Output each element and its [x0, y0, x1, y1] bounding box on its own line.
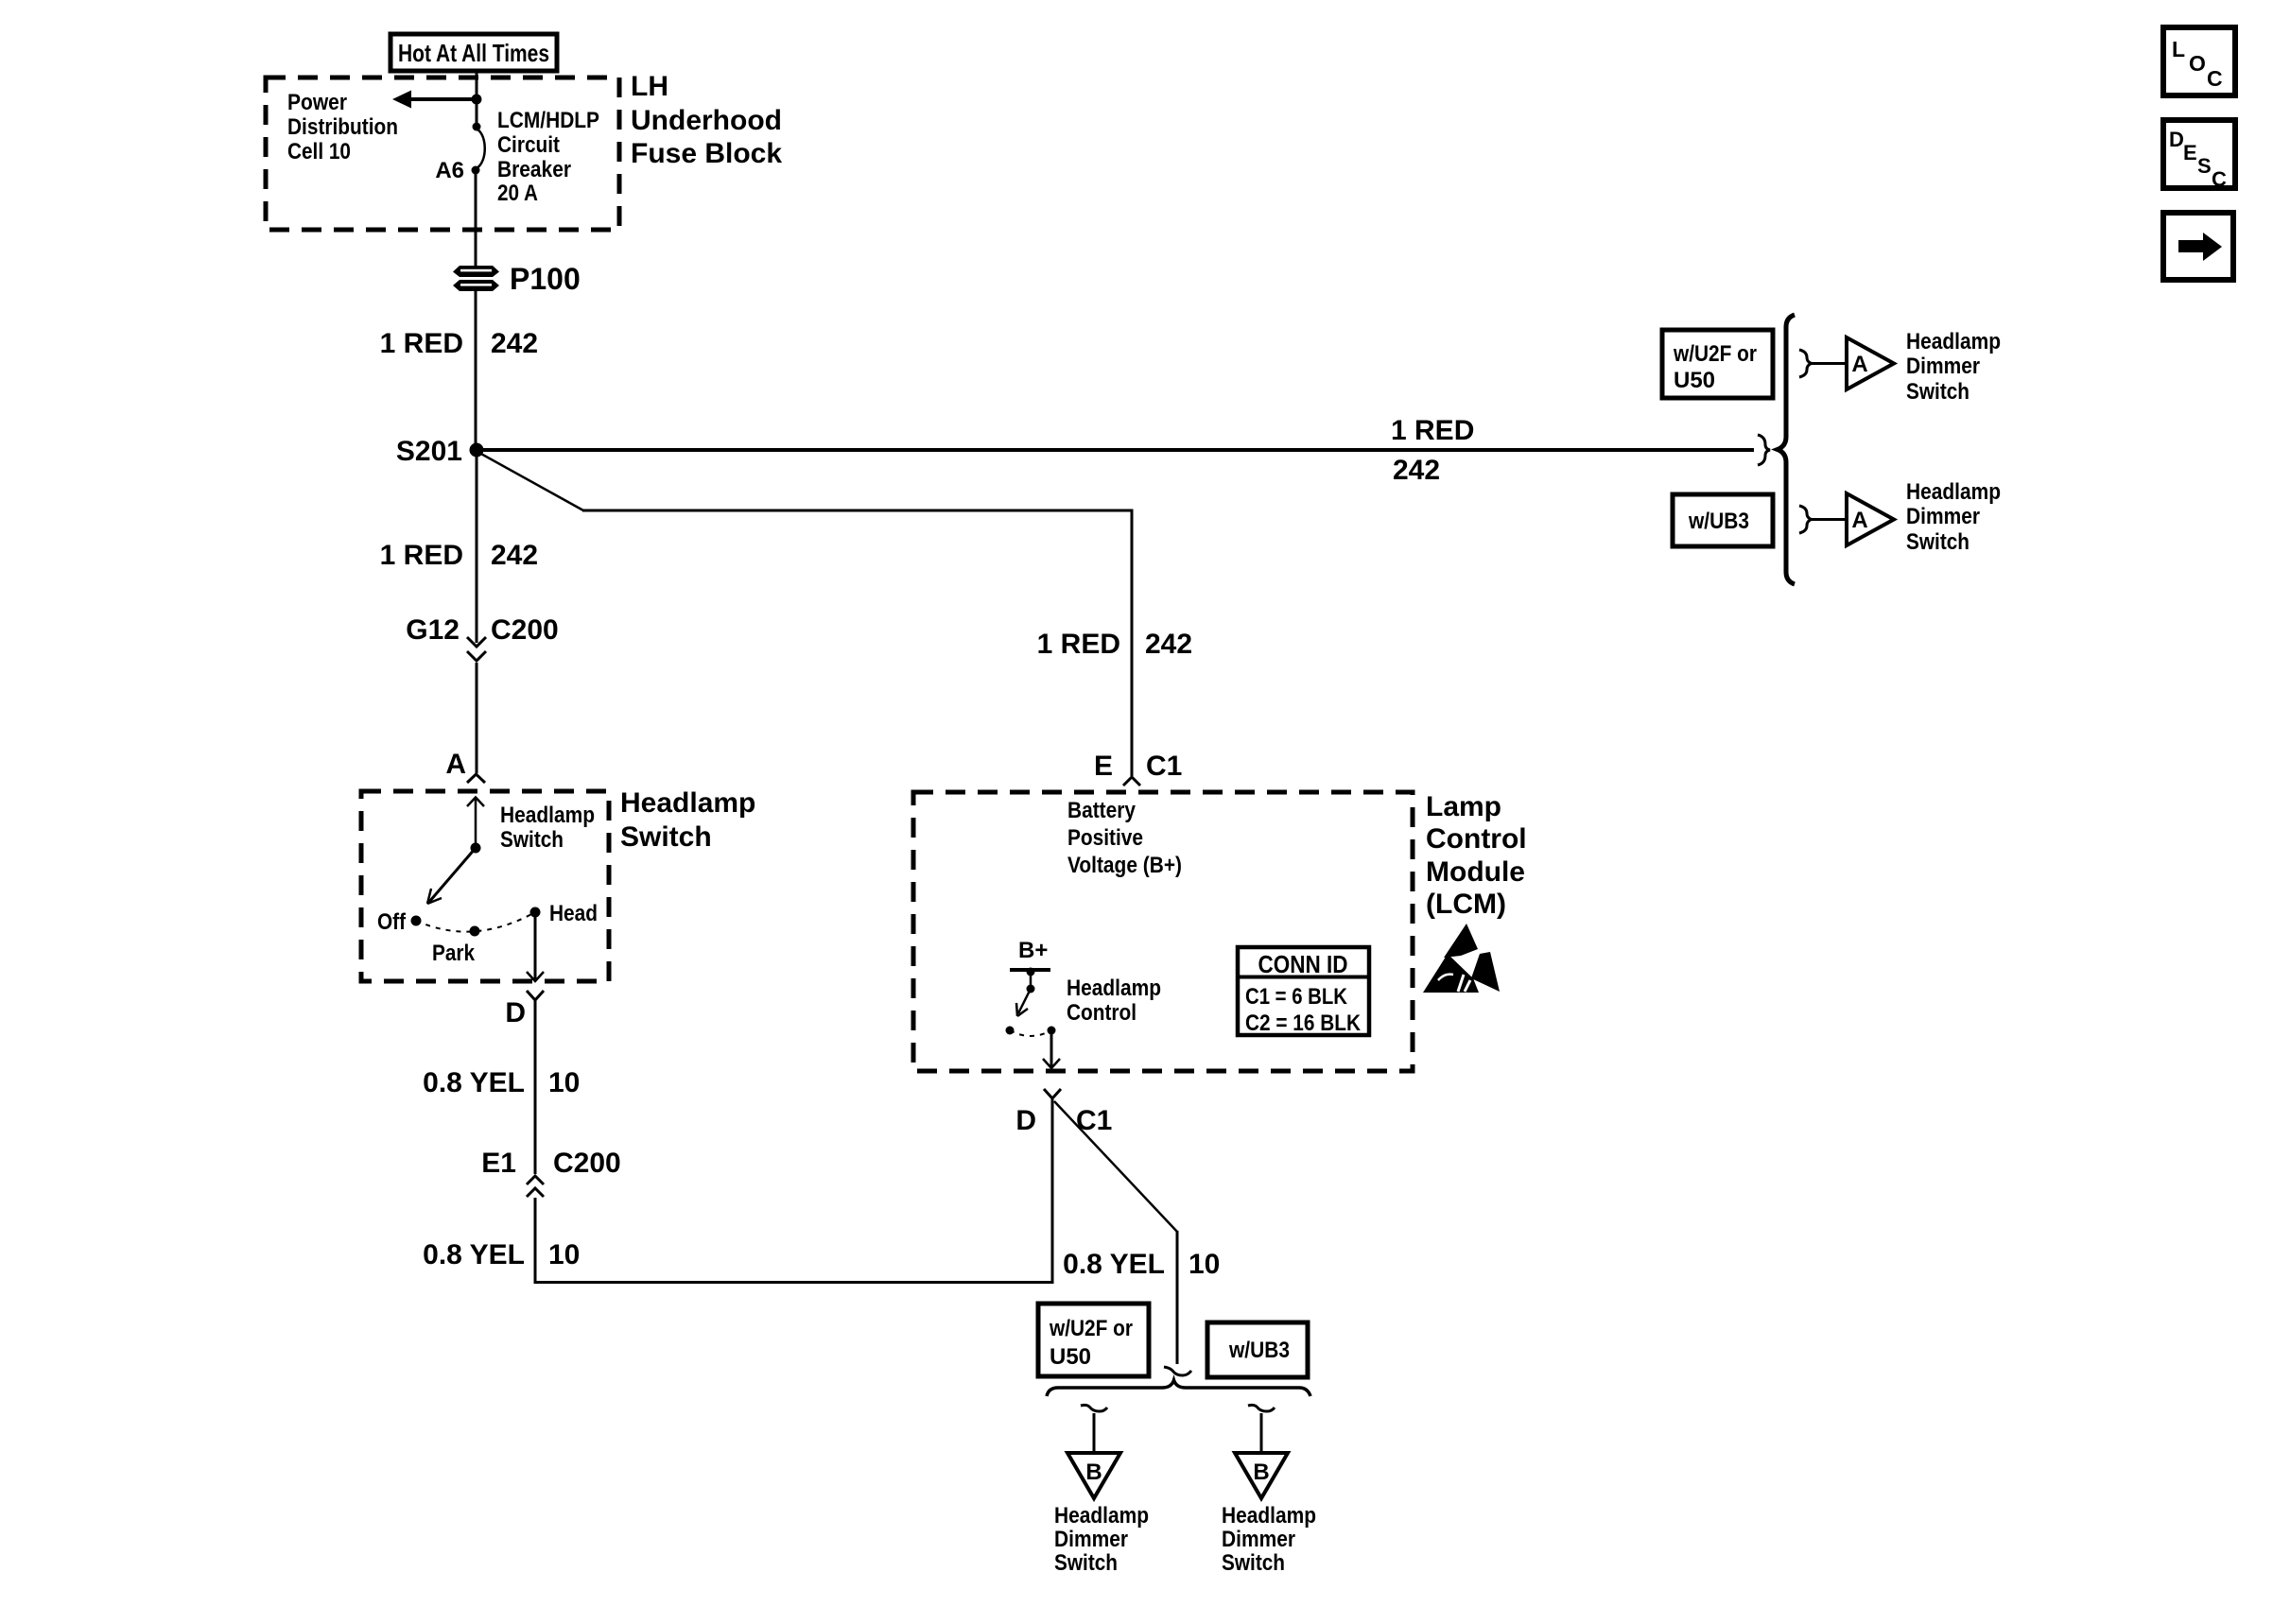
- svg-text:A: A: [1851, 508, 1867, 533]
- connector C200 pin G12 (inline connector chevrons): [406, 614, 558, 661]
- svg-text:1 RED: 1 RED: [380, 328, 463, 359]
- wire: headlamp switch D down to C200: [534, 1000, 537, 1174]
- headlamp switch: Head output arrow: [527, 916, 544, 981]
- svg-text:Dimmer: Dimmer: [1054, 1527, 1128, 1552]
- svg-text:w/U2F or: w/U2F or: [1673, 341, 1757, 367]
- label: P100: [510, 262, 581, 296]
- svg-text:Off: Off: [377, 909, 407, 935]
- LCM: headlamp control output arrow to D: [1043, 1033, 1060, 1068]
- svg-text:Headlamp: Headlamp: [1906, 329, 2001, 354]
- option box: w/U2F or U50 (bottom): [1038, 1304, 1149, 1376]
- splice S201: [396, 436, 484, 467]
- svg-text:Positive: Positive: [1067, 825, 1143, 851]
- svg-text:Headlamp: Headlamp: [620, 787, 755, 819]
- svg-text:Switch: Switch: [500, 827, 564, 853]
- dimmer switch branch A (lower): [1799, 493, 1894, 545]
- svg-text:Module: Module: [1426, 856, 1525, 888]
- nav button: next page arrow: [2163, 213, 2233, 280]
- wire: LCM D to dimmer switch options (diagonal then vertical): [1054, 1101, 1177, 1364]
- svg-text:LCM/HDLP: LCM/HDLP: [497, 108, 599, 133]
- connector half-brace at wire end (right): [1758, 435, 1770, 465]
- svg-text:E1: E1: [481, 1148, 516, 1179]
- switch position Head: [530, 901, 599, 926]
- label: Headlamp Dimmer Switch (lower right): [1906, 479, 2001, 555]
- svg-text:Power: Power: [287, 90, 347, 115]
- wire: breaker A6 down to P100: [475, 174, 477, 266]
- label: Headlamp Dimmer Switch (bottom left): [1054, 1503, 1149, 1576]
- svg-text:O: O: [2189, 51, 2206, 76]
- svg-text:U50: U50: [1050, 1344, 1091, 1370]
- label: 0.8 YEL 10 (switch to C200): [423, 1067, 580, 1098]
- svg-text:Dimmer: Dimmer: [1906, 354, 1980, 379]
- wire: P100 to S201: [475, 291, 477, 444]
- svg-text:E: E: [2183, 141, 2197, 164]
- headlamp switch: wiper arm toward Off: [427, 848, 476, 904]
- LH Underhood Fuse Block (dashed outline): [266, 78, 619, 230]
- svg-text:LH: LH: [631, 71, 668, 102]
- svg-text:20 A: 20 A: [497, 181, 538, 206]
- dimmer switch branch B (right, w/UB3): [1235, 1405, 1288, 1498]
- svg-text:Dimmer: Dimmer: [1906, 504, 1980, 529]
- power feed flag: Hot At All Times: [390, 34, 557, 71]
- switch position Park: [432, 926, 480, 967]
- svg-text:S: S: [2197, 154, 2212, 178]
- label: Headlamp Switch (outside): [620, 787, 755, 853]
- label: 1 RED 242 (fuse block to S201): [380, 328, 538, 359]
- svg-text:Underhood: Underhood: [631, 105, 782, 136]
- svg-text:Headlamp: Headlamp: [1906, 479, 2001, 505]
- svg-text:Control: Control: [1067, 1000, 1136, 1026]
- svg-text:C200: C200: [491, 614, 559, 646]
- switch position Off: [377, 909, 422, 935]
- option box: w/UB3 (top): [1673, 494, 1773, 546]
- svg-text:D: D: [2169, 128, 2184, 151]
- svg-text:P100: P100: [510, 262, 581, 296]
- svg-text:Distribution: Distribution: [287, 114, 398, 140]
- svg-text:10: 10: [548, 1067, 580, 1098]
- brace: dimmer switch options (underbrace): [1047, 1380, 1310, 1396]
- svg-text:Cell 10: Cell 10: [287, 139, 351, 164]
- svg-text:Park: Park: [432, 941, 476, 966]
- svg-text:(LCM): (LCM): [1426, 889, 1506, 920]
- svg-text:G12: G12: [406, 614, 460, 646]
- headlamp switch (dashed outline): [361, 791, 609, 981]
- svg-text:Circuit: Circuit: [497, 132, 560, 158]
- svg-text:D: D: [505, 997, 526, 1028]
- svg-text:Lamp: Lamp: [1426, 791, 1501, 822]
- node: tap to power distribution: [472, 95, 482, 105]
- circuit breaker: LCM/HDLP Circuit Breaker 20 A: [472, 123, 485, 175]
- svg-text:CONN ID: CONN ID: [1258, 950, 1348, 978]
- svg-text:Switch: Switch: [1906, 529, 1969, 555]
- svg-text:U50: U50: [1674, 368, 1715, 393]
- label: Headlamp Dimmer Switch (upper right): [1906, 329, 2001, 405]
- connector C200 pin E1 (inline connector chevrons): [481, 1148, 620, 1197]
- connector P100 (pass-through grommet): [453, 266, 499, 291]
- svg-text:B: B: [1085, 1460, 1102, 1485]
- label: Headlamp Control: [1067, 976, 1161, 1026]
- svg-text:D: D: [1015, 1105, 1036, 1136]
- nav button: LOC: [2163, 27, 2235, 95]
- wire: arrow to Power Distribution Cell 10: [392, 91, 477, 109]
- svg-text:C: C: [2212, 167, 2227, 191]
- svg-text:Switch: Switch: [1222, 1550, 1285, 1576]
- label: 1 RED 242 (C200 to headlamp switch): [380, 540, 538, 571]
- svg-text:w/U2F or: w/U2F or: [1049, 1316, 1133, 1341]
- svg-text:Switch: Switch: [620, 821, 712, 853]
- svg-text:0.8 YEL: 0.8 YEL: [1063, 1249, 1165, 1280]
- svg-text:10: 10: [548, 1239, 580, 1270]
- svg-text:Head: Head: [549, 901, 598, 926]
- svg-text:Breaker: Breaker: [497, 157, 571, 182]
- wire: battery feed from Hot At All Times into fuse block: [476, 71, 478, 127]
- svg-text:Headlamp: Headlamp: [1054, 1503, 1149, 1529]
- label: Battery Positive Voltage (B+): [1067, 798, 1182, 878]
- svg-text:S201: S201: [396, 436, 462, 467]
- label: 1 RED 242 (S201 to LCM): [1037, 629, 1192, 660]
- label: 1 RED / 242 (long horizontal wire): [1391, 415, 1474, 486]
- connector half-brace at wire end (bottom): [1164, 1367, 1191, 1375]
- svg-text:Fuse Block: Fuse Block: [631, 138, 782, 169]
- svg-text:C1 = 6 BLK: C1 = 6 BLK: [1245, 984, 1348, 1010]
- svg-text:w/UB3: w/UB3: [1688, 509, 1749, 534]
- brace: headlamp dimmer switch options: [1778, 315, 1795, 584]
- wire: S201 down to C200: [476, 457, 478, 643]
- wire: S201 branch to LCM pin E (diagonal, horizontal, vertical): [479, 453, 1132, 776]
- svg-text:C: C: [2207, 66, 2223, 91]
- svg-text:Headlamp: Headlamp: [1222, 1503, 1316, 1529]
- option box: w/U2F or U50 (top): [1662, 330, 1773, 398]
- label: Headlamp Dimmer Switch (bottom right): [1222, 1503, 1316, 1576]
- svg-text:A: A: [1851, 352, 1867, 377]
- LCM: B+ internal supply bar: [1010, 938, 1050, 976]
- terminal D / C1 of LCM: [1015, 1089, 1112, 1136]
- label: 0.8 YEL 10 (C200 to LCM): [423, 1239, 580, 1270]
- svg-text:242: 242: [1393, 455, 1440, 486]
- LCM: headlamp control switch: [1006, 972, 1056, 1036]
- wire: S201 to headlamp dimmer switch options (long horizontal): [477, 448, 1754, 452]
- nav button: DESC: [2163, 120, 2235, 191]
- dimmer switch branch A (upper): [1799, 337, 1894, 389]
- svg-text:A: A: [445, 749, 466, 780]
- terminal D of headlamp switch: [505, 991, 544, 1028]
- svg-text:Headlamp: Headlamp: [1067, 976, 1161, 1001]
- svg-text:0.8 YEL: 0.8 YEL: [423, 1239, 525, 1270]
- label: Lamp Control Module (LCM): [1426, 791, 1527, 920]
- svg-text:Headlamp: Headlamp: [500, 803, 595, 828]
- svg-text:242: 242: [491, 328, 538, 359]
- label: LCM/HDLP Circuit Breaker 20 A: [497, 108, 599, 206]
- ESD sensitivity symbol: [1423, 924, 1500, 993]
- svg-text:1 RED: 1 RED: [1391, 415, 1474, 446]
- svg-text:242: 242: [1145, 629, 1192, 660]
- svg-text:Dimmer: Dimmer: [1222, 1527, 1295, 1552]
- headlamp switch: input arrow and common node: [467, 798, 484, 854]
- CONN ID table: [1238, 947, 1369, 1036]
- terminal E / C1 of LCM: [1094, 751, 1182, 786]
- svg-text:C2 = 16 BLK: C2 = 16 BLK: [1245, 1011, 1362, 1036]
- wire: C200 E1 down then right to LCM pin D: [535, 1099, 1052, 1283]
- svg-text:A6: A6: [435, 158, 464, 183]
- terminal A of headlamp switch: [445, 749, 485, 783]
- svg-text:Control: Control: [1426, 823, 1527, 855]
- svg-text:Hot At All Times: Hot At All Times: [398, 39, 549, 67]
- svg-text:Voltage (B+): Voltage (B+): [1067, 853, 1182, 878]
- label: LH Underhood Fuse Block: [631, 71, 782, 169]
- label: Power Distribution Cell 10: [287, 90, 398, 164]
- svg-text:C200: C200: [553, 1148, 621, 1179]
- pin A6: [435, 158, 464, 183]
- svg-text:1 RED: 1 RED: [380, 540, 463, 571]
- LCM (dashed outline): [913, 792, 1413, 1071]
- svg-text:242: 242: [491, 540, 538, 571]
- svg-text:L: L: [2172, 37, 2185, 61]
- svg-text:0.8 YEL: 0.8 YEL: [423, 1067, 525, 1098]
- svg-text:B: B: [1253, 1460, 1269, 1485]
- svg-text:Switch: Switch: [1906, 379, 1969, 405]
- label: Headlamp Switch (inside): [500, 803, 595, 853]
- wire: C200 to headlamp switch terminal A: [476, 663, 478, 773]
- svg-text:B+: B+: [1018, 938, 1048, 963]
- svg-text:10: 10: [1189, 1249, 1220, 1280]
- svg-text:E: E: [1094, 751, 1113, 782]
- dimmer switch branch B (left, w/U2F or U50): [1067, 1405, 1120, 1498]
- svg-text:w/UB3: w/UB3: [1228, 1338, 1290, 1363]
- switch travel arc (dashed): [416, 912, 535, 932]
- svg-text:C1: C1: [1146, 751, 1182, 782]
- label: 0.8 YEL 10 (LCM to dimmer switches): [1063, 1249, 1220, 1280]
- option box: w/UB3 (bottom): [1207, 1322, 1308, 1377]
- svg-text:Battery: Battery: [1067, 798, 1136, 823]
- svg-text:Switch: Switch: [1054, 1550, 1118, 1576]
- svg-text:1 RED: 1 RED: [1037, 629, 1120, 660]
